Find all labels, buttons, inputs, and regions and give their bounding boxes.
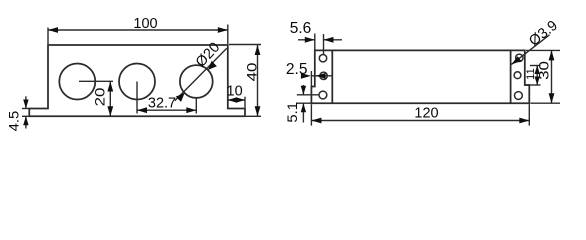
dimension Ø3.9: leader line through top-right hole [511, 35, 549, 65]
dimension 30: dimension line with arrows [551, 50, 553, 103]
dimension 5.1: arrows outside [302, 85, 304, 95]
dimension 5.6: arrows outside [298, 39, 315, 41]
dimension 120: dimension line with arrows [311, 120, 529, 122]
hole circle 1 [59, 64, 95, 100]
svg-text:40: 40 [245, 63, 260, 82]
dimension 100: dimension line with arrows [48, 29, 228, 31]
left strip hole bottom [319, 91, 327, 99]
svg-text:10: 10 [227, 84, 243, 100]
left strip hole middle [320, 72, 327, 79]
middle hole center line [311, 75, 332, 77]
dimension 40: extension lines [229, 44, 261, 46]
dimension 30: extension lines [526, 49, 560, 51]
hole circle 2 [119, 64, 155, 100]
svg-text:120: 120 [414, 105, 438, 121]
left strip hole top [319, 55, 326, 62]
dimension 20: dimension line with arrows [109, 82, 111, 117]
side view outline [311, 50, 529, 103]
dimension Ø20: leader line through circle 3 [175, 48, 227, 100]
left fold line [331, 50, 333, 103]
dimension 5.1: bottom hole center line [297, 94, 319, 96]
dimension 32.7: dimension line with arrows [137, 109, 196, 111]
dimension 4.5: arrows outside [25, 96, 27, 108]
svg-text:2.5: 2.5 [286, 61, 308, 78]
svg-text:20: 20 [93, 88, 108, 107]
dimension 2.5: arrows outside [301, 73, 311, 79]
dimension 2.5: extension of lower-left edge [310, 71, 312, 87]
svg-text:11: 11 [525, 68, 537, 80]
dimension 10: dimension line with arrows [228, 99, 245, 101]
hole circle 3 [180, 65, 213, 98]
right strip hole bottom [515, 92, 523, 100]
body and flange outline [29, 45, 245, 116]
right fold line [510, 50, 512, 103]
right strip hole top [516, 54, 523, 61]
dimension 5.6: extension lines [314, 34, 316, 50]
svg-text:32.7: 32.7 [148, 96, 176, 112]
svg-text:100: 100 [133, 16, 157, 32]
dimension 120: extension lines [310, 104, 312, 125]
dimension 4.5: extension lines [22, 108, 31, 110]
dimension 11: extension lines [530, 65, 541, 67]
svg-text:5.1: 5.1 [286, 102, 301, 123]
dimension 40: dimension line with arrows [257, 45, 259, 116]
dimension 100: extension lines [47, 28, 49, 45]
dimension 11: dimension line with arrows [536, 66, 538, 86]
svg-text:5.6: 5.6 [290, 20, 312, 37]
svg-text:30: 30 [537, 61, 552, 80]
dimension 10: extension line [244, 97, 246, 108]
dimension 32.7: extension lines [136, 82, 138, 114]
circle 1 center line [79, 80, 113, 82]
svg-text:4.5: 4.5 [7, 111, 22, 132]
dimension 5.1: bottom edge extension [296, 102, 311, 104]
right strip hole middle [514, 72, 521, 79]
